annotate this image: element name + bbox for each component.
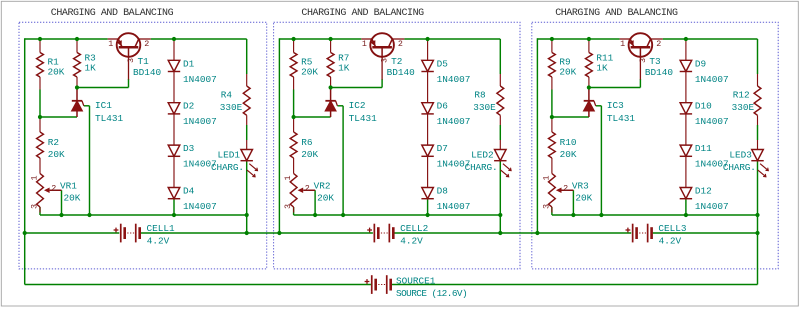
wire cell right b2: [394, 232, 537, 234]
wire D12 bottom: [685, 199, 687, 215]
pin R12 top: [757, 74, 759, 86]
pin R5 top: [293, 39, 295, 53]
diode D11 1N4007: [680, 145, 692, 156]
wire cell left b2: [279, 232, 373, 234]
svg-text:R4: R4: [221, 90, 233, 101]
pin R5 bottom: [293, 77, 295, 90]
svg-text:CHARGING AND BALANCING: CHARGING AND BALANCING: [555, 8, 678, 19]
LED LED2 CHARG.: [495, 150, 507, 161]
diode D4 1N4007: [168, 188, 180, 199]
junction base node b1: [75, 85, 79, 89]
svg-text:20K: 20K: [48, 67, 65, 78]
diode D1 1N4007: [168, 60, 180, 71]
svg-text:BD140: BD140: [645, 67, 674, 78]
wire top rail left b2: [279, 38, 361, 40]
svg-text:3: 3: [283, 204, 293, 209]
wire cell3- down: [757, 233, 759, 285]
resistor R11 1K: [586, 53, 593, 78]
svg-text:330E: 330E: [732, 102, 755, 113]
svg-text:4.2V: 4.2V: [659, 235, 682, 246]
wire left rail b3: [536, 38, 538, 233]
svg-text:2: 2: [563, 184, 568, 194]
svg-text:D6: D6: [437, 101, 449, 112]
junction R1 top: [38, 37, 42, 41]
svg-text:3: 3: [126, 58, 136, 63]
svg-text:VR1: VR1: [60, 181, 77, 192]
svg-text:20K: 20K: [64, 193, 81, 204]
wire R-divider b3: [551, 90, 553, 118]
potentiometer VR2 20K: [290, 174, 297, 208]
wire base down b2: [381, 79, 383, 88]
diode D12 1N4007: [680, 188, 692, 199]
diode D9 1N4007: [680, 60, 692, 71]
svg-text:330E: 330E: [473, 102, 496, 113]
wire TL431 anode b1: [40, 116, 77, 118]
diode D6 1N4007: [422, 103, 434, 114]
junction cell+ b1: [23, 231, 27, 235]
svg-text:1K: 1K: [596, 63, 608, 74]
pin R6 top: [293, 117, 295, 132]
wire bottom rail b1: [40, 214, 247, 216]
pin R1 top: [39, 39, 41, 53]
svg-text:D2: D2: [183, 101, 194, 112]
transistor T3 BD140: [629, 33, 653, 57]
transistor T1 BD140: [117, 33, 141, 57]
pin LED3 top: [757, 140, 759, 150]
pin R2 bottom: [39, 158, 41, 174]
pin R3 top: [76, 39, 78, 53]
junction R11 top: [587, 37, 591, 41]
svg-text:D3: D3: [183, 143, 195, 154]
svg-text:BD140: BD140: [387, 67, 416, 78]
pin D5-D6: [427, 72, 429, 103]
wire ref horiz b1: [84, 105, 90, 107]
junction wiper b1: [59, 213, 63, 217]
svg-text:T1: T1: [138, 56, 150, 67]
pin D10-D11: [685, 114, 687, 145]
wire wiper down b1: [61, 190, 63, 215]
svg-text:CELL2: CELL2: [400, 223, 428, 234]
svg-text:1N4007: 1N4007: [695, 116, 729, 127]
svg-text:VR2: VR2: [314, 181, 331, 192]
wire base to node b3: [589, 87, 641, 89]
diode D7 1N4007: [422, 145, 434, 156]
svg-text:R10: R10: [560, 137, 577, 148]
dashed border block 3: [532, 22, 778, 269]
svg-text:T2: T2: [391, 56, 402, 67]
resistor R6 20K: [290, 132, 297, 158]
pin R4 bottom: [246, 115, 248, 125]
transistor T2 BD140: [370, 33, 394, 57]
wire top rail left b1: [25, 38, 108, 40]
svg-text:20K: 20K: [48, 149, 65, 160]
resistor R7 1K: [327, 53, 334, 78]
pin R7 bottom: [330, 77, 332, 88]
svg-text:LED1: LED1: [218, 150, 241, 161]
pin R2 top: [39, 117, 41, 132]
diode D8 1N4007: [422, 188, 434, 199]
wire base down b3: [639, 79, 641, 88]
svg-text:20K: 20K: [575, 193, 592, 204]
wire ref horiz b2: [337, 105, 343, 107]
wire pot bottom b1: [39, 207, 41, 215]
junction LED col bottom b2: [498, 213, 502, 217]
junction D12 bottom: [684, 213, 688, 217]
wire top rail right b3: [663, 38, 758, 40]
svg-text:IC1: IC1: [95, 100, 112, 111]
wire R-LED link b1: [246, 125, 248, 140]
svg-text:SOURCE (12.6V): SOURCE (12.6V): [396, 288, 467, 299]
pin R11 bottom: [588, 77, 590, 88]
pin R8 top: [499, 74, 501, 86]
battery CELL2 4.2V: [374, 224, 376, 243]
junction ref b3: [599, 213, 603, 217]
junction divider b1: [38, 115, 42, 119]
svg-text:D5: D5: [437, 58, 449, 69]
svg-text:R12: R12: [733, 90, 750, 101]
svg-text:D7: D7: [437, 143, 448, 154]
wire ref vert b2: [342, 106, 344, 215]
svg-text:330E: 330E: [220, 102, 243, 113]
pin D5 top: [427, 39, 429, 60]
wire base to node b1: [77, 87, 129, 89]
svg-text:T3: T3: [649, 56, 661, 67]
wire base down b1: [128, 79, 130, 88]
svg-text:1: 1: [620, 39, 625, 49]
junction ref b2: [341, 213, 345, 217]
svg-text:SOURCE1: SOURCE1: [396, 276, 436, 287]
junction cell+ b2: [277, 231, 281, 235]
svg-text:2: 2: [656, 39, 661, 49]
svg-text:2: 2: [144, 39, 149, 49]
svg-text:4.2V: 4.2V: [147, 235, 170, 246]
svg-text:1K: 1K: [85, 63, 97, 74]
junction base node b2: [329, 85, 333, 89]
pin D2-D3: [173, 114, 175, 145]
diode D3 1N4007: [168, 145, 180, 156]
pin VR3 bottom: [551, 207, 553, 213]
wire cell left b3: [537, 232, 631, 234]
wire R column top b1: [246, 39, 248, 74]
junction cell- b1: [245, 231, 249, 235]
battery CELL1 4.2V: [120, 224, 122, 243]
junction cell- b2: [498, 231, 502, 235]
svg-text:CELL1: CELL1: [147, 223, 176, 234]
LED LED1 CHARG.: [241, 150, 253, 161]
svg-text:20K: 20K: [301, 149, 318, 160]
svg-text:3: 3: [638, 58, 648, 63]
junction D4 bottom: [172, 213, 176, 217]
svg-text:3: 3: [380, 58, 390, 63]
svg-text:1N4007: 1N4007: [183, 74, 217, 85]
pin D1-D2: [173, 72, 175, 103]
wire left rail b2: [278, 38, 280, 233]
svg-text:20K: 20K: [317, 193, 334, 204]
wire wiper down b2: [314, 190, 316, 215]
pin R11 top: [588, 39, 590, 53]
wire ref vert b3: [600, 106, 602, 215]
pin R9 bottom: [551, 77, 553, 90]
svg-text:TL431: TL431: [607, 113, 636, 124]
wire base to node b2: [331, 87, 383, 89]
junction cell+ b3: [535, 231, 539, 235]
junction cell- b3: [755, 231, 759, 235]
diode D5 1N4007: [422, 60, 434, 71]
junction divider b2: [292, 115, 296, 119]
LED LED3 CHARG.: [752, 150, 764, 161]
shunt regulator IC2 TL431: [330, 88, 332, 101]
potentiometer VR3 20K: [549, 174, 556, 208]
svg-text:CHARGING AND BALANCING: CHARGING AND BALANCING: [301, 8, 424, 19]
wire cell right b3: [653, 232, 758, 234]
wire bottom rail b3: [552, 214, 758, 216]
wire wiper down b3: [572, 190, 574, 215]
svg-text:1N4007: 1N4007: [437, 74, 471, 85]
svg-text:1N4007: 1N4007: [695, 201, 729, 212]
svg-text:3: 3: [30, 204, 40, 209]
svg-text:CHARG.: CHARG.: [211, 162, 244, 173]
shunt regulator IC3 TL431: [588, 88, 590, 101]
wire cell right b1: [141, 232, 280, 234]
svg-text:CELL3: CELL3: [658, 223, 687, 234]
wire source right: [391, 284, 757, 286]
svg-text:4.2V: 4.2V: [400, 235, 423, 246]
wire top rail right b2: [404, 38, 500, 40]
pin D1 top: [173, 39, 175, 60]
wire R column top b2: [499, 39, 501, 74]
junction R5 top: [292, 37, 296, 41]
svg-text:D1: D1: [183, 58, 195, 69]
svg-text:20K: 20K: [559, 67, 576, 78]
svg-text:D11: D11: [695, 143, 712, 154]
pin R9 top: [551, 39, 553, 53]
svg-text:IC3: IC3: [607, 100, 624, 111]
resistor R2 20K: [37, 132, 44, 158]
junction R9 top: [550, 37, 554, 41]
wire R-LED link b3: [757, 125, 759, 140]
svg-text:TL431: TL431: [95, 113, 124, 124]
svg-text:D12: D12: [695, 186, 712, 197]
junction D8 bottom: [426, 213, 430, 217]
svg-text:CHARG.: CHARG.: [465, 162, 498, 173]
svg-text:CHARG.: CHARG.: [723, 162, 756, 173]
wire R column top b3: [757, 39, 759, 74]
svg-text:R8: R8: [474, 90, 486, 101]
svg-text:CHARGING AND BALANCING: CHARGING AND BALANCING: [51, 8, 174, 19]
battery SOURCE1 12.6V: [371, 275, 373, 294]
svg-text:2: 2: [398, 39, 403, 49]
pin D3-D4: [173, 156, 175, 187]
svg-text:20K: 20K: [560, 149, 577, 160]
pin D9-D10: [685, 72, 687, 103]
svg-text:1: 1: [362, 39, 367, 49]
pin D6-D7: [427, 114, 429, 145]
resistor R1 20K: [37, 53, 44, 78]
junction LED col bottom b3: [755, 213, 759, 217]
svg-text:2: 2: [51, 184, 56, 194]
dashed border block 2: [274, 22, 520, 269]
junction wiper b3: [571, 213, 575, 217]
resistor R12 330E: [754, 86, 761, 115]
wire LED to rails b2: [499, 161, 501, 233]
wire top rail left b3: [537, 38, 619, 40]
diode D10 1N4007: [680, 103, 692, 114]
wire LED to rails b3: [757, 161, 759, 233]
wire pot bottom b3: [551, 207, 553, 215]
wire cell left b1: [25, 232, 120, 234]
pin VR1 bottom: [39, 207, 41, 213]
wire ref vert b1: [89, 106, 91, 215]
pin R10 bottom: [551, 158, 553, 174]
pin R3 bottom: [76, 77, 78, 88]
svg-text:1: 1: [108, 39, 113, 49]
junction LED col bottom b1: [245, 213, 249, 217]
pin D9 top: [685, 39, 687, 60]
wire ref horiz b3: [596, 105, 602, 107]
pin R1 bottom: [39, 77, 41, 90]
pin R12 bottom: [757, 115, 759, 125]
junction wiper b2: [313, 213, 317, 217]
junction ref b1: [87, 213, 91, 217]
svg-text:1: 1: [283, 175, 293, 180]
pin LED2 top: [499, 140, 501, 150]
resistor R10 20K: [549, 132, 556, 158]
diode D2 1N4007: [168, 103, 180, 114]
resistor R5 20K: [290, 53, 297, 78]
svg-text:1N4007: 1N4007: [437, 201, 471, 212]
svg-text:20K: 20K: [301, 67, 318, 78]
svg-text:VR3: VR3: [572, 181, 589, 192]
wire left rail b1: [24, 38, 26, 284]
resistor R8 330E: [497, 86, 504, 115]
pin D11-D12: [685, 156, 687, 187]
junction D1 top: [172, 37, 176, 41]
svg-text:1K: 1K: [338, 63, 350, 74]
battery CELL3 4.2V: [632, 224, 634, 243]
pin R8 bottom: [499, 115, 501, 125]
shunt regulator IC1 TL431: [76, 88, 78, 101]
svg-text:R2: R2: [48, 137, 59, 148]
wire top rail right b1: [151, 38, 247, 40]
wire R-divider b1: [39, 90, 41, 118]
junction divider b3: [550, 115, 554, 119]
svg-text:D10: D10: [695, 101, 712, 112]
wire LED to rails b1: [246, 161, 248, 233]
wire pot bottom b2: [293, 207, 295, 215]
wire TL431 anode b2: [294, 116, 331, 118]
wire R-divider b2: [293, 90, 295, 118]
resistor R9 20K: [549, 53, 556, 78]
wire R-LED link b2: [499, 125, 501, 140]
junction D5 top: [426, 37, 430, 41]
resistor R4 330E: [243, 86, 250, 115]
junction R3 top: [75, 37, 79, 41]
svg-text:1N4007: 1N4007: [183, 116, 217, 127]
wire D4 bottom: [173, 199, 175, 215]
wire D8 bottom: [427, 199, 429, 215]
potentiometer VR1 20K: [37, 174, 44, 208]
wire bottom rail b2: [294, 214, 501, 216]
pin R10 top: [551, 117, 553, 132]
svg-text:1N4007: 1N4007: [695, 74, 729, 85]
svg-text:R6: R6: [301, 137, 313, 148]
svg-text:BD140: BD140: [133, 67, 162, 78]
junction D9 top: [684, 37, 688, 41]
svg-text:LED3: LED3: [729, 150, 752, 161]
svg-text:2: 2: [305, 184, 310, 194]
svg-text:1: 1: [30, 175, 40, 180]
wire source left: [25, 284, 371, 286]
svg-text:D9: D9: [695, 58, 706, 69]
wire TL431 anode b3: [552, 116, 589, 118]
svg-text:1N4007: 1N4007: [183, 201, 217, 212]
svg-text:3: 3: [542, 204, 552, 209]
svg-text:1N4007: 1N4007: [437, 116, 471, 127]
svg-text:D4: D4: [183, 186, 195, 197]
pin R4 top: [246, 74, 248, 86]
svg-text:D8: D8: [437, 186, 449, 197]
junction base node b3: [587, 85, 591, 89]
dashed border block 1: [19, 22, 267, 269]
pin R7 top: [330, 39, 332, 53]
svg-text:1: 1: [542, 175, 552, 180]
pin VR2 bottom: [293, 207, 295, 213]
svg-text:LED2: LED2: [471, 150, 494, 161]
svg-text:TL431: TL431: [349, 113, 378, 124]
resistor R3 1K: [74, 53, 81, 78]
pin LED1 top: [246, 140, 248, 150]
junction R7 top: [329, 37, 333, 41]
svg-text:IC2: IC2: [349, 100, 366, 111]
pin D7-D8: [427, 156, 429, 187]
pin R6 bottom: [293, 158, 295, 174]
